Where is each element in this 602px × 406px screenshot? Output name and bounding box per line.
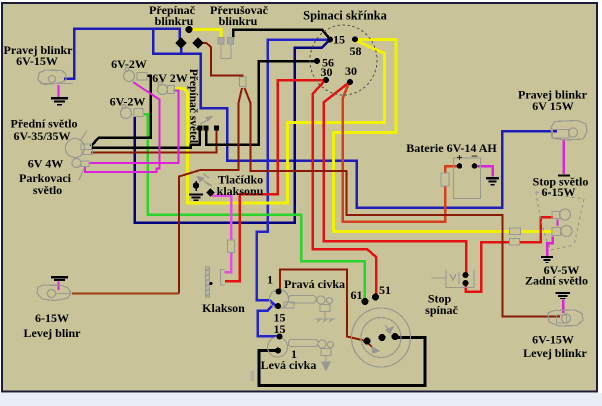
wire magenta front left blinker ground <box>58 282 60 291</box>
ground rear right blinker <box>558 175 570 177</box>
magneto outer circle <box>352 308 411 367</box>
battery ground <box>486 178 499 185</box>
flasher unit <box>218 38 234 59</box>
svg-text:−: − <box>471 149 478 163</box>
wire maroon branch to front left blinker <box>179 88 242 294</box>
fuse on battery wire <box>441 173 449 186</box>
lamp 6V 2W <box>158 82 175 95</box>
coil2 terminal 1 <box>275 348 281 354</box>
svg-text:1: 1 <box>291 347 297 361</box>
svg-text:klaksonu: klaksonu <box>217 184 264 198</box>
turn signal switch dots <box>175 26 203 49</box>
svg-text:6V 2W: 6V 2W <box>152 71 187 85</box>
magneto arrow mark <box>372 325 393 353</box>
wire magenta tail lamp ground <box>547 237 553 257</box>
rear lamp connectors on yellow and red <box>510 228 521 245</box>
wire yellow switch dot to flasher <box>192 30 221 38</box>
ignition terminal 56 <box>314 58 320 64</box>
parking lamp <box>72 159 89 181</box>
magneto inner circle <box>361 318 401 358</box>
fuse on horn wire <box>228 240 235 253</box>
svg-text:6V 4W: 6V 4W <box>28 157 63 171</box>
coil1 terminal 1 <box>276 289 282 295</box>
stop switch terminals <box>463 272 469 286</box>
wire blue branch to coil1 terminal 15 <box>258 303 278 337</box>
svg-text:58: 58 <box>350 44 362 58</box>
svg-text:6-15W: 6-15W <box>35 311 69 325</box>
lamp front right blinker <box>38 70 73 85</box>
svg-text:1: 1 <box>267 273 273 287</box>
ignition terminal 30a <box>323 77 329 83</box>
svg-text:30: 30 <box>345 64 357 78</box>
wire black magneto to coil2 <box>259 338 425 386</box>
svg-text:61: 61 <box>351 288 363 302</box>
tail lamp <box>552 226 572 237</box>
light switch terminals <box>198 126 220 131</box>
svg-text:Přepínač světel: Přepínač světel <box>187 69 199 143</box>
horn button ground <box>189 195 203 201</box>
spark plug 1 <box>315 296 335 322</box>
wire red stop switch to stop lamp <box>466 217 554 292</box>
ignition terminal 30b <box>347 79 353 85</box>
wire blue stub diamond1 down <box>180 45 183 54</box>
svg-text:6V-35/35W: 6V-35/35W <box>13 129 70 143</box>
ignition terminal 15 <box>327 37 333 43</box>
coil1 terminal 15 <box>275 303 281 309</box>
svg-text:blinkru: blinkru <box>155 14 194 28</box>
lamp 6V-2W upper <box>124 68 148 82</box>
connector on flasher maroon wire <box>240 77 247 87</box>
wire orange front left blinker horizontal <box>72 293 179 295</box>
wire black headlight to light switch A <box>91 130 200 148</box>
lamp front left blinker <box>37 285 71 301</box>
svg-text:6V-2W: 6V-2W <box>111 57 147 71</box>
ground front right blinker <box>51 98 68 105</box>
stop lamp <box>552 209 571 220</box>
light switch lever <box>200 117 212 125</box>
svg-text:Baterie 6V-14 AH: Baterie 6V-14 AH <box>406 141 497 155</box>
wire maroon headlight dip beam <box>91 130 217 152</box>
svg-text:51: 51 <box>379 283 391 297</box>
horn connector bracket <box>221 270 225 286</box>
tail lamp ground <box>541 257 553 263</box>
wire navy parking lamp to ignition 15 <box>135 41 330 223</box>
magneto terminal 61 <box>362 298 369 305</box>
svg-text:6V-15W: 6V-15W <box>16 54 58 68</box>
wire maroon branch to rear left blinker <box>245 88 561 316</box>
svg-text:Levej blinkr: Levej blinkr <box>523 346 587 360</box>
wire blue front right blinker to switch <box>64 29 180 79</box>
wire black light switch B to ignition 56 <box>206 61 315 145</box>
svg-text:Spinaci skřínka: Spinaci skřínka <box>303 9 387 23</box>
svg-text:6-15W: 6-15W <box>542 185 576 199</box>
wire maroon switch diamond2 to flasher connector <box>200 43 243 78</box>
horn body <box>206 267 210 297</box>
ground front left blinker <box>51 277 68 280</box>
ignition terminal 58 <box>352 36 358 42</box>
wire magenta front right blinker ground <box>58 85 60 97</box>
ground rear left blinker <box>556 293 571 299</box>
lamp rear right blinker <box>551 121 587 141</box>
coil2 terminal 15 <box>277 334 283 340</box>
wire magenta lamp1 to parking lamp <box>85 82 159 172</box>
wire red ignition 30 to horn <box>225 80 324 281</box>
wire yellow ignition 58 to tail lamp <box>334 40 553 232</box>
headlight <box>66 131 93 158</box>
svg-text:Pravá civka: Pravá civka <box>284 277 345 291</box>
wire black flasher to ignition 15 <box>233 30 329 39</box>
wire magenta parking lamp to lamp2 <box>89 91 179 164</box>
svg-text:+: + <box>456 152 462 164</box>
svg-text:6V-15W: 6V-15W <box>532 333 574 347</box>
rear fender dashed outline <box>536 192 584 250</box>
horn button lever <box>198 174 213 187</box>
wire magenta rear left blinker ground <box>562 300 565 314</box>
magneto right dot <box>392 333 399 340</box>
spark plug 2 <box>318 340 334 370</box>
wire orange battery to ignition 30 <box>343 83 458 222</box>
svg-text:spínač: spínač <box>425 303 458 317</box>
wire blue bus to rear right blinker <box>153 30 557 208</box>
wire maroon coil1 to magneto <box>280 270 364 341</box>
wire pink horn button to horn <box>212 196 231 273</box>
svg-text:Zadní světlo: Zadní světlo <box>525 274 588 288</box>
gray stub left of coil box <box>251 371 255 381</box>
wire blue ignition 15 to coil terminals 15 <box>257 40 330 307</box>
svg-text:30: 30 <box>321 65 333 79</box>
stop switch body <box>432 270 475 288</box>
lamp 6V-2W lower <box>121 105 144 119</box>
wire magenta stop lamp stub <box>557 220 559 227</box>
svg-text:světlo: světlo <box>33 183 62 197</box>
ignition switch circle <box>310 25 377 95</box>
svg-text:Levá civka: Levá civka <box>261 358 317 372</box>
coil1 Prava civka <box>270 290 317 309</box>
wire black headlight main to lamp1 <box>91 76 151 147</box>
svg-text:Levej blinr: Levej blinr <box>24 326 82 340</box>
horn button dot <box>193 181 199 191</box>
wire red ignition 30 to magneto 51 <box>313 81 377 296</box>
lamp rear left blinker <box>548 310 583 326</box>
wire yellow ignition 58 to speedometer lamp <box>175 41 385 203</box>
wire green lamp3 to magneto 61 <box>144 114 365 299</box>
svg-text:6V 15W: 6V 15W <box>532 99 573 113</box>
coil2 Leva civka <box>268 337 319 357</box>
svg-text:6V-2W: 6V-2W <box>110 95 146 109</box>
horn terminal dot <box>210 282 213 285</box>
wire magenta battery ground <box>476 166 493 177</box>
wire magenta rear right blinker ground <box>562 139 565 174</box>
battery terminals <box>457 163 478 169</box>
svg-text:15: 15 <box>274 322 286 336</box>
battery box <box>454 158 481 199</box>
magneto left dot <box>364 338 371 345</box>
magneto terminal 51 <box>372 294 379 301</box>
horn button contact dot <box>206 188 214 196</box>
magneto center dot <box>379 334 386 341</box>
wire dark red magneto stub <box>367 342 374 349</box>
svg-text:blinkru: blinkru <box>219 14 258 28</box>
svg-text:15: 15 <box>333 33 345 47</box>
wire red ignition 30 to stop switch <box>324 83 467 274</box>
svg-text:Klakson: Klakson <box>202 301 245 315</box>
